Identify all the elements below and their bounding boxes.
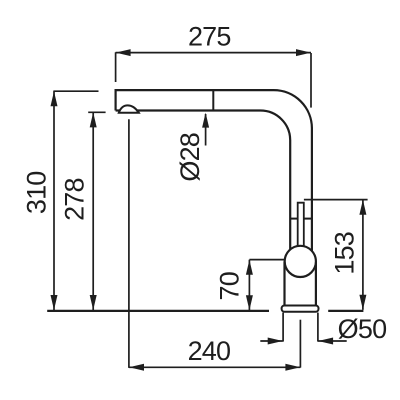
dim 70 line [248, 260, 250, 311]
svg-text:Ø28: Ø28 [175, 133, 205, 182]
dim 153 extension [304, 199, 368, 201]
dim 240 extension from aerator [128, 119, 130, 368]
dim 310 line [53, 91, 55, 310]
dim Ø50 left arrow [260, 340, 282, 342]
dim 240 extension base centre [299, 320, 301, 368]
svg-text:240: 240 [188, 336, 231, 366]
dim 278 extension [88, 111, 105, 113]
dim 278 line [92, 112, 94, 310]
ball joint [285, 246, 316, 277]
dim 70 extension [249, 259, 285, 261]
dim 153 line [362, 200, 364, 310]
svg-text:70: 70 [215, 272, 245, 300]
tube end joint ticks [290, 218, 298, 220]
dim 240 line [129, 366, 300, 368]
spray-head joint line [212, 90, 214, 110]
dim Ø28 arrow [205, 114, 207, 146]
svg-text:Ø50: Ø50 [338, 314, 387, 344]
svg-text:310: 310 [21, 171, 51, 214]
base flange [282, 306, 319, 312]
dim 275 line [116, 52, 311, 54]
countertop reference line left segment [47, 310, 269, 312]
body cylinder sides [283, 261, 285, 306]
faucet spout tube outline [116, 90, 312, 251]
dim 275 extension left [115, 52, 117, 82]
svg-text:275: 275 [188, 22, 231, 52]
dim 310 extension [53, 90, 98, 92]
faucet spout underside [116, 111, 291, 252]
dim 275 extension right [310, 53, 312, 108]
dim Ø50 extension left [282, 313, 284, 342]
svg-text:153: 153 [330, 232, 360, 275]
pull-out hose [298, 203, 304, 250]
countertop reference line right segment [328, 310, 363, 312]
dim Ø50 extension right [317, 313, 319, 342]
dim Ø50 right arrow [318, 340, 347, 342]
svg-text:278: 278 [60, 178, 90, 221]
aerator bump [119, 105, 139, 112]
